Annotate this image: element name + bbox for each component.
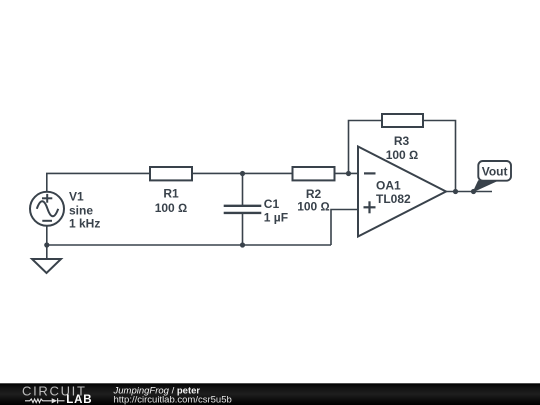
R3 value labels	[386, 134, 419, 162]
junction at V1 minus / ground	[44, 242, 49, 247]
wire R2 to op-amp minus input	[335, 172, 358, 174]
wire V1 bottom stub	[46, 226, 48, 245]
svg-text:1 µF: 1 µF	[264, 211, 288, 225]
junction at Vout flag attachment	[471, 189, 476, 194]
junction at op-amp output / feedback	[453, 189, 458, 194]
svg-text:sine: sine	[69, 203, 93, 217]
junction at C1 bottom / bottom rail	[240, 242, 245, 247]
ground	[32, 259, 61, 273]
svg-text:Vout: Vout	[482, 164, 508, 178]
wire feedback left riser	[349, 121, 383, 174]
wire riser to op-amp plus input	[331, 210, 358, 246]
R1 value labels	[155, 186, 188, 215]
svg-text:LAB: LAB	[66, 394, 92, 405]
svg-text:http://circuitlab.com/csr5u5b: http://circuitlab.com/csr5u5b	[114, 394, 232, 405]
resistor R2	[293, 167, 335, 180]
wire C1 top stub	[242, 173, 244, 205]
wire R1 to R2	[192, 172, 293, 174]
wire bottom rail	[47, 244, 331, 246]
footer bar	[0, 383, 540, 405]
svg-text:C1: C1	[264, 197, 280, 211]
resistor R1	[150, 167, 192, 180]
svg-text:R1: R1	[163, 186, 179, 200]
voltage source V1	[30, 192, 64, 226]
resistor R3	[382, 114, 423, 127]
op-amp labels	[376, 179, 411, 206]
wire C1 bottom stub	[242, 214, 244, 245]
svg-text:100 Ω: 100 Ω	[155, 201, 188, 215]
wire top-left from V1 to R1	[47, 173, 150, 191]
wire feedback right segment	[423, 121, 456, 192]
op-amp OA1	[358, 147, 446, 237]
junction at feedback tap / inverting input	[346, 171, 351, 176]
svg-text:OA1: OA1	[376, 179, 401, 193]
svg-text:100 Ω: 100 Ω	[386, 148, 419, 162]
svg-text:V1: V1	[69, 189, 84, 203]
capacitor C1	[224, 206, 262, 213]
wire output	[446, 191, 492, 193]
wire ground stub	[46, 245, 48, 259]
R2 value labels	[297, 187, 330, 214]
C1 value labels	[264, 197, 288, 225]
CircuitLab logo diode fill	[52, 398, 58, 403]
svg-text:R3: R3	[394, 134, 410, 148]
junction at C1 top / R1-R2 rail	[240, 171, 245, 176]
op-amp minus sign	[364, 172, 376, 174]
op-amp plus sign	[364, 201, 376, 213]
svg-text:TL082: TL082	[376, 192, 411, 206]
svg-text:1 kHz: 1 kHz	[69, 216, 100, 230]
node Vout flag	[474, 161, 512, 192]
svg-text:100 Ω: 100 Ω	[297, 200, 330, 214]
CircuitLab logo squiggle (resistor + diode)	[25, 398, 65, 403]
V1 labels	[69, 189, 100, 230]
